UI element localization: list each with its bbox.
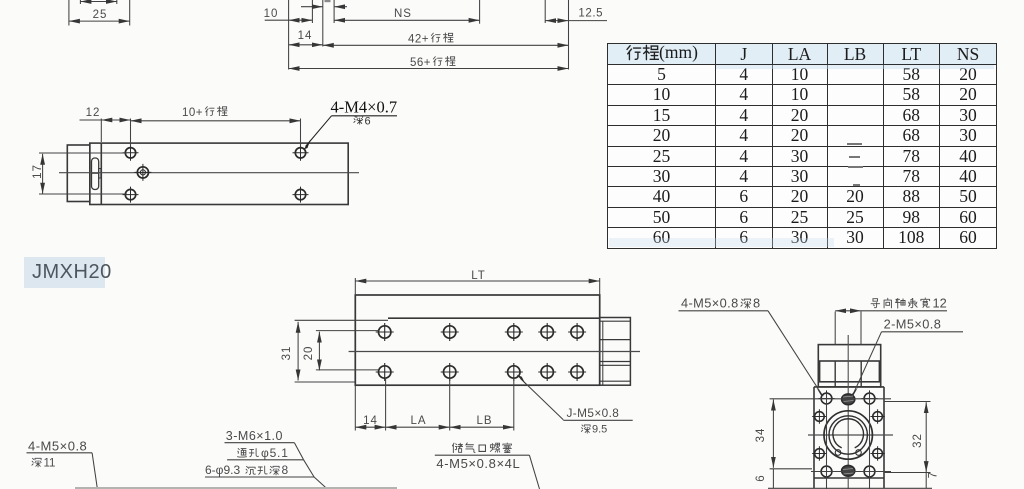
svg-text:7: 7 [928,471,940,478]
svg-text:12: 12 [933,295,947,310]
scan artifacts: faint blue bands in table [716,65,994,69]
svg-text:4-M5×0.8×4L: 4-M5×0.8×4L [436,456,520,471]
screw holes top row [812,390,885,479]
dimension 10+stroke [131,120,301,122]
dimension 12.5 [545,20,568,22]
svg-text:4-M5×0.8: 4-M5×0.8 [28,439,87,454]
dimension 31 [295,319,388,321]
tiny cut-off digit fragment at top edge [325,0,331,2]
leader arrowhead at hole [304,140,311,150]
svg-text:10: 10 [264,8,279,20]
centerline [59,172,359,174]
svg-text:8: 8 [282,463,289,477]
svg-text:8: 8 [753,295,760,310]
main body rectangle [90,143,348,204]
svg-text:14: 14 [298,30,313,42]
dimension 25 [69,20,130,22]
dimension 20 [316,330,379,332]
faint cut-off line at bottom edge [75,487,397,489]
svg-text:12: 12 [86,107,101,119]
leader arrowheads [816,388,824,397]
svg-text:3-M6×1.0: 3-M6×1.0 [226,429,283,443]
svg-text:17: 17 [32,164,44,179]
svg-text:31: 31 [281,346,293,361]
leader 4-M5x0.8 / depth11 [27,452,93,454]
svg-text:NS: NS [394,8,412,20]
left 25-dim piece: extension lines [68,0,70,26]
dimension 17 [39,152,127,154]
inner body edge line [388,317,600,319]
bottom extension line [768,487,932,489]
svg-text:2-M5×0.8: 2-M5×0.8 [884,317,942,332]
screw row axis lines [811,471,891,473]
label depth6 [354,116,363,124]
side screws [812,409,826,423]
CJK glyphs for 56+行程 [433,56,455,65]
tiny cut-off dim at top [301,6,323,8]
guide bearing width 12 dim [834,312,836,345]
label through hole 5.1 [238,449,259,458]
label gas plug (5 CJK) [452,443,511,453]
dimension 12 [80,119,102,121]
top row holes [376,323,586,381]
dark port top [842,394,855,405]
dimension 42+stroke [323,44,569,46]
spec table [607,43,997,249]
dim 34 [770,398,891,400]
svg-text:6: 6 [365,115,371,127]
top remnant small dim arrows [80,1,116,3]
dimension 56+stroke [289,68,569,70]
svg-text:25: 25 [93,9,108,21]
svg-text:9.5: 9.5 [592,423,607,435]
label 4-M5x0.8 depth8 : underline and leader [679,310,769,312]
right end block [600,318,631,386]
label guide bearing width 12 [871,298,930,308]
glyph defs for CJK characters drawn as strokes [0,0,4,4]
svg-text:12.5: 12.5 [578,8,603,20]
leader of gas plug label [435,454,530,456]
dimension LT [354,278,356,295]
svg-text:6: 6 [755,474,767,481]
vertical centerline [847,335,849,489]
main slide table rectangle [355,295,599,385]
center partial drawing: body edge extension lines [288,0,290,70]
svg-text:4-M4×0.7: 4-M4×0.7 [331,98,398,117]
dim 7 [925,473,927,489]
bottom row holes [376,363,394,381]
CJK glyphs for 10+行程 [205,106,227,115]
dim 12 extension lines [100,119,102,143]
horizontal centerline of bore [808,434,893,436]
svg-text:J-M5×0.8: J-M5×0.8 [567,406,620,420]
svg-text:10+: 10+ [182,107,203,119]
bottom dimensions 14 / LA / LB [354,385,356,430]
dimension 14 [289,44,323,46]
JMXH20 model label [24,257,105,288]
bore circles [824,411,872,459]
dim 6 [772,469,774,489]
leader 4-M4x0.7 [332,115,398,117]
dimension 10 [265,19,289,21]
left end cap [67,145,90,202]
centerline of top view [349,351,640,353]
svg-text:LB: LB [476,415,492,427]
svg-text:42+: 42+ [408,34,429,46]
dimension NS [334,19,480,21]
center hole [134,164,151,181]
svg-text:φ5.1: φ5.1 [261,446,289,460]
slot in cap [92,158,99,190]
svg-text:32: 32 [912,433,924,448]
bottom row [818,463,834,479]
svg-text:LT: LT [471,270,486,282]
svg-text:34: 34 [755,428,767,443]
svg-text:LA: LA [410,415,426,427]
svg-text:20: 20 [303,346,315,361]
dash marks in LB column [847,143,862,145]
inner vertical (cap/body joint) [100,143,102,204]
arrowhead at J-M5 hole [516,375,526,385]
label 2-M5x0.8 underline and leader [882,331,964,333]
CJK glyphs for 42+行程 [431,33,453,42]
svg-text:56+: 56+ [410,57,431,69]
leaders of counterbore labels [225,442,295,444]
body rectangle [813,387,815,489]
svg-text:6-φ9.3: 6-φ9.3 [205,463,240,477]
screw holes 4-M4 (bottom view) [123,145,309,203]
guide bearing tab [818,345,880,387]
leader J-M5x0.8 [521,379,564,420]
svg-text:11: 11 [44,457,56,469]
svg-text:4-M5×0.8: 4-M5×0.8 [681,295,739,310]
svg-text:14: 14 [363,415,378,427]
dim 32 [884,401,931,403]
